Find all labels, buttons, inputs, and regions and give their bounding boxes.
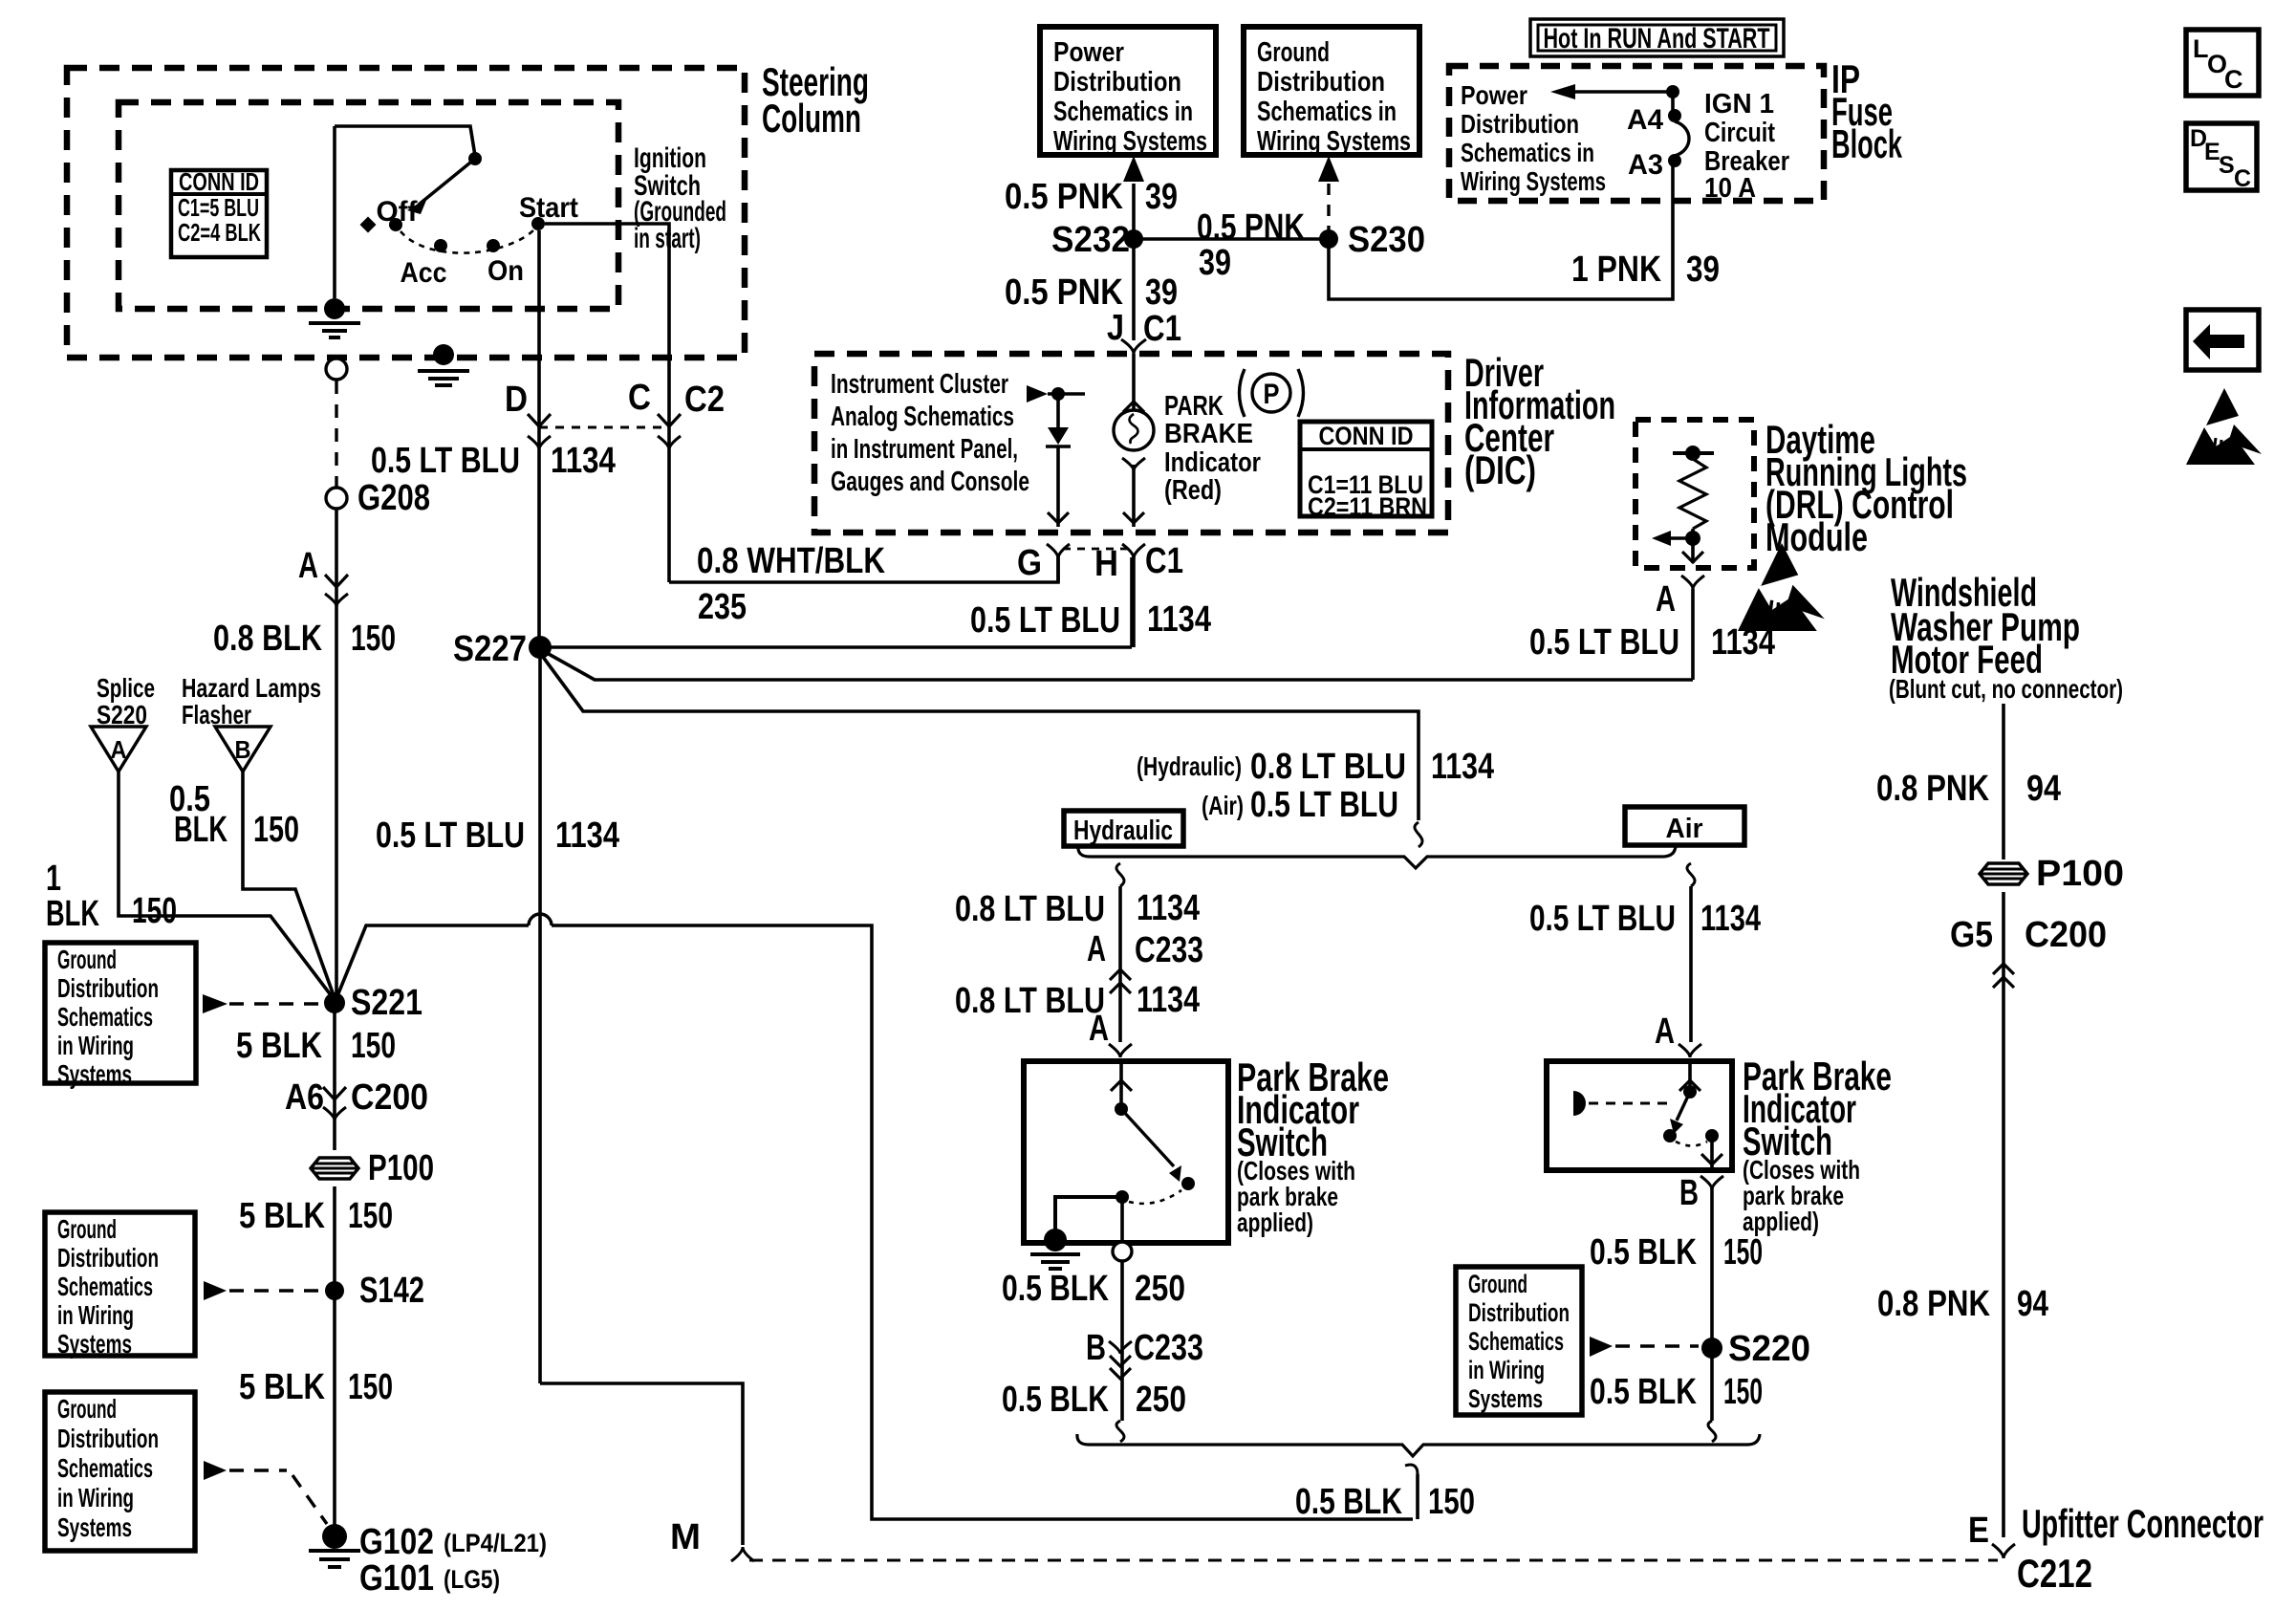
- svg-text:Hydraulic: Hydraulic: [1073, 816, 1173, 846]
- svg-text:150: 150: [132, 891, 177, 931]
- svg-text:Indicator: Indicator: [1164, 447, 1261, 478]
- svg-text:S142: S142: [359, 1271, 424, 1311]
- svg-text:1: 1: [46, 859, 61, 899]
- svg-text:Ground: Ground: [57, 1214, 117, 1244]
- svg-text:C233: C233: [1135, 930, 1203, 970]
- svg-text:0.8 LT BLU: 0.8 LT BLU: [955, 981, 1105, 1021]
- svg-text:G208: G208: [357, 478, 430, 518]
- svg-text:C200: C200: [2025, 915, 2107, 955]
- svg-text:Column: Column: [762, 96, 861, 141]
- svg-text:Ground: Ground: [1257, 37, 1330, 68]
- svg-text:B: B: [1086, 1328, 1106, 1368]
- svg-text:(Red): (Red): [1164, 475, 1222, 506]
- svg-text:0.5 BLK: 0.5 BLK: [1295, 1482, 1402, 1522]
- svg-text:in Wiring: in Wiring: [57, 1300, 134, 1330]
- svg-text:150: 150: [1723, 1372, 1763, 1412]
- svg-text:Instrument Cluster: Instrument Cluster: [831, 369, 1008, 400]
- svg-text:in Instrument Panel,: in Instrument Panel,: [831, 434, 1018, 465]
- svg-text:94: 94: [2017, 1284, 2048, 1324]
- svg-text:A: A: [298, 546, 318, 586]
- svg-text:P100: P100: [2036, 854, 2124, 894]
- svg-text:5 BLK: 5 BLK: [236, 1026, 322, 1066]
- svg-text:1134: 1134: [555, 816, 619, 856]
- svg-text:250: 250: [1135, 1269, 1185, 1309]
- svg-text:Schematics: Schematics: [57, 1272, 153, 1301]
- svg-text:Ground: Ground: [1468, 1270, 1527, 1298]
- svg-text:1134: 1134: [1147, 599, 1211, 640]
- svg-text:1134: 1134: [1431, 747, 1494, 787]
- svg-text:BLK: BLK: [174, 810, 227, 850]
- svg-text:0.8 WHT/BLK: 0.8 WHT/BLK: [697, 541, 885, 581]
- svg-text:C200: C200: [351, 1077, 428, 1118]
- svg-text:(Air): (Air): [1202, 791, 1244, 820]
- svg-text:J: J: [1107, 308, 1124, 348]
- svg-text:M: M: [670, 1517, 701, 1557]
- svg-text:Hot In RUN And START: Hot In RUN And START: [1544, 23, 1770, 54]
- svg-text:Schematics in: Schematics in: [1257, 97, 1397, 127]
- svg-text:A3: A3: [1628, 149, 1663, 181]
- svg-text:C233: C233: [1134, 1328, 1203, 1368]
- svg-text:Distribution: Distribution: [57, 1243, 159, 1273]
- svg-text:Off: Off: [377, 196, 419, 228]
- svg-text:Distribution: Distribution: [1461, 109, 1579, 139]
- svg-text:39: 39: [1145, 272, 1178, 313]
- svg-text:S227: S227: [453, 629, 527, 669]
- svg-text:Acc: Acc: [401, 257, 447, 289]
- svg-text:1134: 1134: [1137, 980, 1200, 1020]
- svg-text:5 BLK: 5 BLK: [239, 1367, 325, 1407]
- svg-text:G101: G101: [359, 1558, 434, 1599]
- svg-text:Schematics in: Schematics in: [1053, 97, 1193, 127]
- svg-text:C2=11 BRN: C2=11 BRN: [1308, 492, 1427, 521]
- svg-text:5 BLK: 5 BLK: [239, 1196, 325, 1236]
- svg-text:Distribution: Distribution: [1468, 1298, 1570, 1327]
- svg-text:Distribution: Distribution: [1257, 67, 1385, 98]
- svg-text:Schematics: Schematics: [1468, 1327, 1564, 1356]
- svg-text:G102: G102: [359, 1522, 434, 1562]
- svg-text:0.5 PNK: 0.5 PNK: [1005, 272, 1123, 313]
- svg-text:S220: S220: [97, 700, 147, 729]
- svg-text:in Wiring: in Wiring: [57, 1031, 134, 1060]
- svg-text:0.5 LT BLU: 0.5 LT BLU: [371, 441, 520, 481]
- svg-text:39: 39: [1145, 177, 1178, 217]
- svg-text:C: C: [628, 378, 651, 418]
- svg-text:10 A: 10 A: [1704, 173, 1756, 204]
- svg-text:BLK: BLK: [46, 894, 99, 934]
- svg-text:0.5 LT BLU: 0.5 LT BLU: [1529, 899, 1676, 939]
- svg-text:0.8 PNK: 0.8 PNK: [1876, 769, 1989, 809]
- svg-text:Gauges and Console: Gauges and Console: [831, 467, 1029, 497]
- svg-text:A6: A6: [285, 1077, 324, 1118]
- svg-text:Block: Block: [1831, 121, 1902, 166]
- svg-text:S: S: [2219, 152, 2235, 179]
- svg-text:Systems: Systems: [57, 1059, 132, 1089]
- svg-text:(DIC): (DIC): [1464, 447, 1536, 492]
- svg-text:A: A: [111, 735, 127, 764]
- svg-text:B: B: [1679, 1173, 1699, 1213]
- svg-text:Module: Module: [1765, 514, 1868, 559]
- svg-text:(LP4/L21): (LP4/L21): [444, 1529, 547, 1557]
- svg-text:0.8 PNK: 0.8 PNK: [1877, 1284, 1990, 1324]
- svg-text:S220: S220: [1728, 1329, 1810, 1369]
- svg-text:150: 150: [348, 1367, 393, 1407]
- svg-text:S232: S232: [1051, 220, 1130, 260]
- svg-text:IGN 1: IGN 1: [1704, 89, 1774, 120]
- svg-text:Circuit: Circuit: [1704, 118, 1775, 148]
- svg-text:0.5 PNK: 0.5 PNK: [1005, 177, 1123, 217]
- svg-text:0.5 BLK: 0.5 BLK: [1590, 1232, 1697, 1273]
- svg-text:0.5 LT BLU: 0.5 LT BLU: [1250, 785, 1398, 825]
- svg-text:Wiring Systems: Wiring Systems: [1257, 126, 1411, 157]
- svg-text:1134: 1134: [1700, 899, 1761, 939]
- svg-text:Distribution: Distribution: [1053, 67, 1181, 98]
- svg-text:(Blunt cut, no connector): (Blunt cut, no connector): [1889, 674, 2123, 704]
- svg-text:Ground: Ground: [57, 1394, 117, 1424]
- svg-text:CONN ID: CONN ID: [1319, 422, 1414, 450]
- svg-text:150: 150: [348, 1196, 393, 1236]
- svg-text:0.5 BLK: 0.5 BLK: [1002, 1269, 1109, 1309]
- svg-text:0.5 BLK: 0.5 BLK: [1590, 1372, 1697, 1412]
- svg-text:(Hydraulic): (Hydraulic): [1137, 751, 1242, 781]
- svg-text:Wiring Systems: Wiring Systems: [1053, 126, 1207, 157]
- svg-text:C: C: [2224, 65, 2243, 94]
- svg-text:Distribution: Distribution: [57, 1424, 159, 1453]
- svg-text:in start): in start): [634, 223, 701, 254]
- svg-text:Upfitter Connector: Upfitter Connector: [2022, 1501, 2264, 1546]
- svg-text:applied): applied): [1237, 1207, 1313, 1237]
- svg-text:Schematics: Schematics: [57, 1453, 153, 1483]
- svg-text:Wiring Systems: Wiring Systems: [1461, 166, 1606, 196]
- svg-text:BRAKE: BRAKE: [1164, 419, 1253, 449]
- svg-text:Schematics in: Schematics in: [1461, 138, 1594, 167]
- svg-text:39: 39: [1199, 243, 1231, 283]
- svg-text:Start: Start: [519, 192, 578, 224]
- svg-text:1 PNK: 1 PNK: [1571, 250, 1661, 290]
- svg-text:1134: 1134: [1711, 622, 1775, 663]
- svg-text:94: 94: [2026, 769, 2061, 809]
- svg-text:Schematics: Schematics: [57, 1002, 153, 1032]
- svg-text:in Wiring: in Wiring: [1468, 1356, 1545, 1384]
- svg-text:Power: Power: [1053, 37, 1124, 68]
- svg-text:C1: C1: [1145, 541, 1183, 581]
- svg-text:A: A: [1656, 579, 1676, 620]
- svg-text:Hazard Lamps: Hazard Lamps: [182, 673, 321, 703]
- svg-text:0.8 LT BLU: 0.8 LT BLU: [955, 889, 1105, 929]
- svg-text:0.5 LT BLU: 0.5 LT BLU: [1529, 622, 1679, 663]
- svg-text:150: 150: [253, 810, 299, 850]
- svg-text:G5: G5: [1950, 915, 1993, 955]
- svg-text:Power: Power: [1461, 80, 1527, 110]
- svg-text:C212: C212: [2017, 1551, 2092, 1596]
- svg-text:Distribution: Distribution: [57, 973, 159, 1003]
- svg-text:C: C: [2234, 165, 2251, 192]
- svg-text:A: A: [1089, 1009, 1109, 1049]
- svg-text:250: 250: [1136, 1380, 1186, 1420]
- svg-text:Flasher: Flasher: [182, 700, 251, 729]
- svg-text:CONN ID: CONN ID: [179, 167, 259, 196]
- svg-text:39: 39: [1686, 250, 1720, 290]
- svg-text:0.5 LT BLU: 0.5 LT BLU: [970, 600, 1120, 641]
- svg-text:A: A: [1655, 1012, 1675, 1052]
- svg-text:On: On: [487, 255, 524, 287]
- svg-text:H: H: [1094, 544, 1118, 584]
- svg-text:Systems: Systems: [57, 1329, 132, 1359]
- svg-text:G: G: [1017, 543, 1042, 583]
- svg-text:(LG5): (LG5): [444, 1565, 500, 1594]
- svg-text:Splice: Splice: [97, 673, 155, 703]
- svg-text:Ground: Ground: [57, 945, 117, 974]
- svg-text:150: 150: [1428, 1482, 1475, 1522]
- svg-text:PARK: PARK: [1164, 391, 1224, 422]
- svg-text:P: P: [1264, 379, 1280, 410]
- svg-text:in Wiring: in Wiring: [57, 1483, 134, 1512]
- svg-text:Systems: Systems: [57, 1512, 132, 1542]
- svg-text:A4: A4: [1627, 104, 1663, 136]
- svg-text:C2: C2: [684, 380, 725, 420]
- svg-text:C2=4 BLK: C2=4 BLK: [178, 218, 261, 247]
- svg-text:235: 235: [698, 587, 747, 627]
- svg-text:0.5 PNK: 0.5 PNK: [1197, 207, 1305, 248]
- svg-text:Air: Air: [1666, 814, 1703, 844]
- svg-text:1134: 1134: [1137, 888, 1200, 928]
- svg-text:E: E: [1968, 1511, 1989, 1551]
- svg-text:150: 150: [1723, 1232, 1763, 1273]
- svg-text:B: B: [235, 735, 251, 764]
- svg-text:150: 150: [351, 1026, 396, 1066]
- svg-text:P100: P100: [368, 1148, 434, 1188]
- svg-text:C1: C1: [1143, 309, 1181, 349]
- svg-text:D: D: [505, 380, 528, 420]
- svg-text:S230: S230: [1348, 220, 1425, 260]
- svg-text:0.5 LT BLU: 0.5 LT BLU: [376, 816, 525, 856]
- svg-text:0.8 LT BLU: 0.8 LT BLU: [1250, 747, 1406, 787]
- svg-text:0.8 BLK: 0.8 BLK: [213, 619, 322, 659]
- svg-text:S221: S221: [351, 983, 422, 1023]
- svg-text:Analog Schematics: Analog Schematics: [831, 402, 1014, 432]
- svg-text:150: 150: [351, 619, 396, 659]
- svg-text:Systems: Systems: [1468, 1384, 1543, 1413]
- svg-text:A: A: [1087, 929, 1106, 969]
- svg-text:1134: 1134: [551, 441, 616, 481]
- svg-text:0.5 BLK: 0.5 BLK: [1002, 1380, 1109, 1420]
